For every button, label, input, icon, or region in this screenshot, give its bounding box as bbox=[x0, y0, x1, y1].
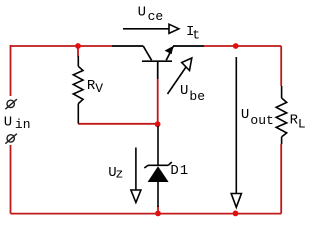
svg-text:U: U bbox=[4, 114, 12, 130]
svg-text:U: U bbox=[138, 5, 146, 21]
svg-text:z: z bbox=[116, 167, 124, 182]
svg-text:in: in bbox=[15, 117, 31, 132]
svg-text:D1: D1 bbox=[170, 163, 189, 179]
svg-text:out: out bbox=[250, 113, 273, 128]
svg-text:ce: ce bbox=[148, 9, 164, 24]
svg-text:L: L bbox=[298, 117, 306, 132]
svg-text:U: U bbox=[180, 83, 188, 99]
svg-text:be: be bbox=[189, 89, 205, 104]
svg-text:U: U bbox=[241, 107, 249, 123]
svg-text:V: V bbox=[95, 81, 103, 96]
svg-text:t: t bbox=[192, 28, 200, 43]
